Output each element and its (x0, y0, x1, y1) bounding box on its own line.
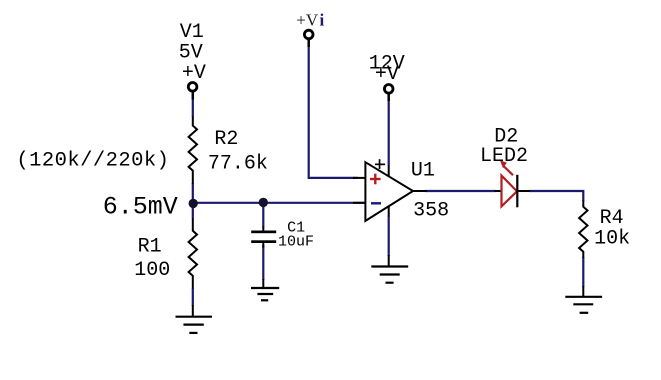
svg-text:R1: R1 (138, 235, 162, 258)
svg-text:10k: 10k (594, 227, 630, 250)
svg-text:R2: R2 (214, 128, 238, 151)
svg-text:i: i (320, 10, 325, 29)
svg-text:100: 100 (134, 259, 170, 282)
svg-text:10uF: 10uF (278, 234, 314, 251)
svg-text:5V: 5V (179, 41, 203, 64)
svg-text:+V: +V (182, 62, 206, 85)
svg-text:+V: +V (375, 63, 399, 86)
svg-text:+V: +V (296, 10, 319, 29)
svg-text:6.5mV: 6.5mV (103, 192, 178, 221)
svg-text:(120k//220k): (120k//220k) (16, 149, 169, 172)
svg-text:V1: V1 (180, 21, 204, 44)
svg-text:U1: U1 (411, 159, 435, 182)
svg-text:77.6k: 77.6k (208, 152, 268, 175)
svg-text:LED2: LED2 (480, 145, 528, 168)
svg-text:358: 358 (413, 199, 449, 222)
